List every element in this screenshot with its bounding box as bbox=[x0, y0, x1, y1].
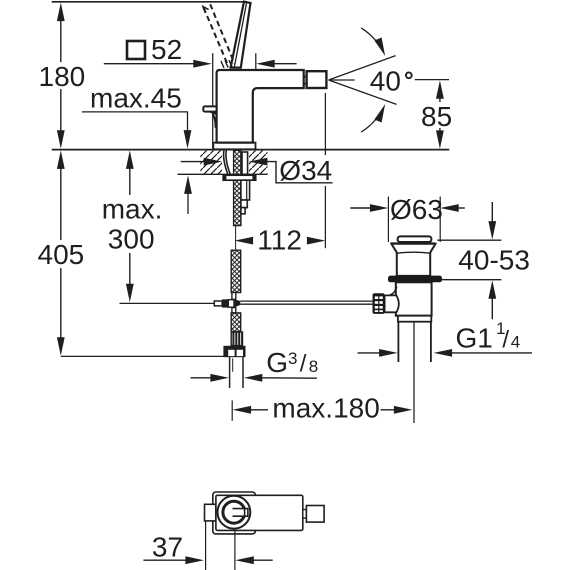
label G1 1/4 bbox=[456, 319, 521, 354]
dim max180 bbox=[233, 393, 413, 424]
dim 85 bbox=[415, 80, 452, 149]
svg-text:40-53: 40-53 bbox=[458, 244, 530, 275]
hose upper segment bbox=[231, 250, 241, 292]
svg-text:40: 40 bbox=[370, 65, 401, 96]
faucet body and spout bbox=[217, 70, 304, 143]
dim 180 bbox=[39, 3, 86, 149]
max45 lower arrow bbox=[184, 175, 192, 194]
label Ø34 with leader bbox=[181, 155, 333, 186]
top view: inner ring bbox=[223, 501, 245, 523]
top view: body bbox=[216, 495, 303, 530]
dashed lever open arrow bbox=[203, 7, 209, 13]
label square 52 bbox=[127, 34, 182, 65]
svg-text:180: 180 bbox=[39, 61, 86, 92]
tailpipe bbox=[397, 322, 399, 362]
drain neck bbox=[391, 244, 435, 276]
supply nut bbox=[223, 346, 245, 357]
threaded stud with hose bbox=[234, 150, 241, 225]
svg-text:Ø63: Ø63 bbox=[390, 194, 443, 225]
svg-text:G: G bbox=[266, 347, 288, 378]
max45 leader bbox=[82, 112, 188, 132]
side lever tab bbox=[203, 106, 216, 111]
ext line pipe bottom bbox=[231, 400, 233, 420]
top view: outer circle bbox=[218, 496, 251, 529]
405 bottom reference line bbox=[61, 355, 224, 357]
dim 52 line bbox=[104, 60, 297, 68]
centerline gap bbox=[235, 226, 237, 250]
drain rosette flange bbox=[388, 276, 442, 283]
dim G3/8 bbox=[191, 374, 317, 382]
top reference line bbox=[52, 1, 245, 3]
svg-text:405: 405 bbox=[38, 239, 85, 270]
svg-text:max.: max. bbox=[102, 194, 163, 225]
svg-text:/: / bbox=[502, 327, 509, 354]
top view: spout notch bbox=[303, 510, 307, 519]
top view: side tab bbox=[205, 504, 216, 521]
svg-text:/: / bbox=[300, 351, 307, 378]
dim 405 bbox=[38, 150, 85, 355]
handle lever solid bbox=[231, 2, 251, 68]
stud right white bbox=[242, 152, 248, 174]
body ring bbox=[398, 316, 431, 322]
label G3/8 bbox=[266, 347, 318, 378]
dim G1 1/4 bbox=[358, 349, 533, 357]
dim 40-53 bbox=[437, 202, 530, 319]
spray arc arrows bbox=[361, 28, 376, 41]
svg-text:8: 8 bbox=[309, 357, 318, 376]
deck hatch right bbox=[249, 151, 268, 175]
svg-text:4: 4 bbox=[511, 333, 520, 352]
lever dashed position bbox=[204, 4, 235, 66]
deck bottom line bbox=[178, 173, 268, 175]
svg-text:3: 3 bbox=[288, 349, 297, 368]
hose neck upper bbox=[232, 293, 236, 300]
ext line handle left bbox=[212, 53, 214, 148]
spout neck bbox=[304, 76, 307, 78]
side lever curve bbox=[208, 112, 216, 115]
cap flange bbox=[391, 242, 435, 244]
svg-text:52: 52 bbox=[151, 34, 182, 65]
top view: spout tip bbox=[306, 506, 324, 523]
deck hatch left bbox=[200, 151, 222, 175]
svg-text:G1: G1 bbox=[456, 322, 493, 353]
top view: handle square bbox=[213, 492, 256, 534]
svg-text:max.45: max.45 bbox=[90, 82, 182, 113]
svg-text:85: 85 bbox=[421, 101, 452, 132]
pop-up rod bbox=[240, 300, 372, 302]
ext/center line drain bbox=[413, 323, 415, 424]
spray lines bbox=[329, 56, 396, 80]
dim 37 bbox=[143, 522, 272, 570]
dim 112 bbox=[235, 225, 326, 256]
check valve fitting steps bbox=[241, 180, 250, 200]
svg-text:Ø34: Ø34 bbox=[279, 155, 332, 186]
supply pipe bbox=[229, 357, 231, 388]
svg-text:37: 37 bbox=[152, 531, 183, 562]
washer under deck bbox=[223, 175, 256, 180]
svg-text:300: 300 bbox=[108, 224, 155, 255]
rod reference line left bbox=[120, 302, 215, 304]
aerator bbox=[307, 71, 327, 88]
shank curved edge bbox=[226, 151, 230, 175]
drain body bbox=[396, 282, 432, 315]
rod connector bbox=[214, 301, 222, 306]
drain cap bbox=[398, 236, 432, 242]
hose ferrule bbox=[231, 332, 242, 346]
dim max300 bbox=[102, 150, 163, 302]
ext line handle right bbox=[255, 53, 257, 69]
ext line spout reach bbox=[324, 93, 326, 155]
hose neck lower bbox=[232, 308, 236, 313]
hose lower segment bbox=[231, 313, 241, 332]
dim Ø63 bbox=[350, 194, 465, 242]
top view: key slot bbox=[233, 509, 248, 517]
svg-text:max.180: max.180 bbox=[272, 393, 379, 424]
lever cylinder bbox=[385, 295, 399, 312]
faucet base plate bbox=[213, 143, 255, 150]
deck line bbox=[52, 149, 450, 151]
lever motion ticks bbox=[221, 61, 224, 68]
knurled knob bbox=[373, 293, 385, 314]
svg-text:112: 112 bbox=[257, 225, 302, 256]
